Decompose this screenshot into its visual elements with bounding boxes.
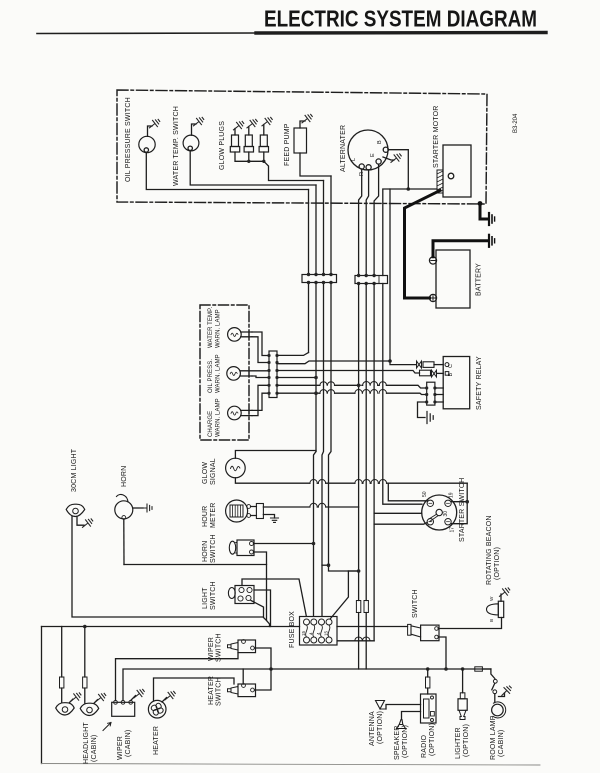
lighter label xyxy=(455,724,470,759)
fuse 1 xyxy=(304,619,310,625)
svg-text:(OPTION): (OPTION) xyxy=(402,725,409,758)
wire: headlight drop 2 with fuse xyxy=(84,627,86,704)
heater label xyxy=(153,726,160,755)
fuse F-B2 xyxy=(364,601,368,613)
node: B1 link junction xyxy=(348,570,358,572)
hour meter xyxy=(226,500,248,522)
alternator terminal letters xyxy=(351,140,383,176)
wire: glow signal top run xyxy=(235,451,316,459)
headlight lamp 1 xyxy=(56,703,74,715)
starter switch terminal 50 xyxy=(427,500,433,506)
node: radio tap xyxy=(426,667,430,671)
fuse 3 xyxy=(319,619,325,625)
alternator label xyxy=(340,125,347,172)
node: horn switch feed junction xyxy=(312,542,316,546)
wire: horn down xyxy=(123,519,125,564)
oil press warn lamp xyxy=(227,367,269,381)
connector bar 2 xyxy=(355,276,388,284)
water temp warn lamp xyxy=(228,328,252,342)
warn lamp dash-dot box xyxy=(200,305,249,440)
bus A3 vertical with jog xyxy=(322,181,324,617)
node: row4/A2 junction xyxy=(314,376,318,380)
battery positive thick wire to starter motor xyxy=(405,191,441,299)
wire: water temp switch to bus A2 xyxy=(190,151,316,186)
bus B4 vertical (starter feed) xyxy=(383,284,422,505)
wire: hour meter ground lead xyxy=(263,515,274,519)
wire: starter motor S terminal to node S xyxy=(408,188,437,190)
wire: fuse box feed horizontal with hops xyxy=(337,640,374,642)
safety relay fuse B bowtie xyxy=(432,370,437,377)
wire: L1 main cab feed xyxy=(42,626,408,628)
battery negative thick wire to ground xyxy=(433,241,487,257)
oil pressure switch xyxy=(139,117,162,152)
radio label xyxy=(421,723,436,758)
wire: hour meter to bus B1 xyxy=(263,506,358,508)
light switch label xyxy=(202,581,217,610)
wiper switch label xyxy=(208,633,223,662)
heater switch body xyxy=(238,684,256,697)
svg-text:(OPTION): (OPTION) xyxy=(377,711,384,744)
fuse box label xyxy=(289,611,296,648)
node: row6/A2 junction xyxy=(314,391,318,395)
node: headlight tap xyxy=(83,625,87,629)
fuse 2 xyxy=(311,619,317,625)
page code B3-204 xyxy=(513,113,519,133)
svg-text:(OPTION): (OPTION) xyxy=(429,723,436,756)
wire: switch bottom to bus xyxy=(438,637,446,669)
node: wiper/heater junction xyxy=(269,667,273,671)
wire: L1 left drop to bottom rail xyxy=(41,627,43,764)
node: A3/A4 link xyxy=(322,564,329,566)
node: switch drop xyxy=(444,667,448,671)
horn switch body xyxy=(237,540,254,556)
feed pump label xyxy=(284,123,291,166)
battery label xyxy=(476,263,483,296)
engine compartment dash-dot box xyxy=(117,90,487,204)
radio xyxy=(421,694,437,723)
wire: B3 branch to starter switch terminal R1 xyxy=(374,523,427,525)
wire: heater fan feed xyxy=(154,678,235,701)
wire: feed pump to bus A4 xyxy=(300,153,331,176)
starter switch wiper lines xyxy=(429,514,438,521)
rotating beacon lamp xyxy=(498,601,503,617)
title: ELECTRIC SYSTEM DIAGRAM xyxy=(264,6,537,32)
wire: light switch right to L1 xyxy=(254,590,271,627)
relay terminal B xyxy=(445,372,449,376)
wire: room lamp switch drop xyxy=(491,669,495,679)
svg-text:LIGHTER: LIGHTER xyxy=(455,727,462,759)
wire: strip row1 joins bus A1 xyxy=(277,353,309,356)
inline fuse: room lamp xyxy=(475,667,483,671)
wire: glow plug rail to bus A3 xyxy=(264,161,324,180)
lighter xyxy=(460,693,465,699)
horn xyxy=(115,501,133,519)
bus A1 vertical xyxy=(308,190,310,353)
safety relay box xyxy=(443,357,470,409)
fuse 4 xyxy=(326,619,332,625)
wiper motor xyxy=(112,702,135,716)
wiper motor label xyxy=(117,730,132,760)
wire: wiper motor T1 to wiper switch xyxy=(116,653,239,701)
wire: switch to beacon xyxy=(438,618,501,629)
water temp switch xyxy=(183,115,205,151)
wire: wiper motor T2 to main bus xyxy=(123,669,491,700)
heater switch label xyxy=(208,676,223,706)
wires: connector block to relay xyxy=(435,388,443,402)
bus B1 vertical xyxy=(358,284,360,670)
hour meter label xyxy=(202,503,217,529)
title underline rule xyxy=(37,32,258,35)
bus A2 vertical with jog xyxy=(314,185,317,617)
svg-text:ANTENNA: ANTENNA xyxy=(369,711,376,746)
node: row5/B1 junction xyxy=(357,384,361,388)
hour meter connector xyxy=(251,507,257,516)
water temp warn lamp label xyxy=(208,307,222,348)
starter switch label xyxy=(459,478,466,542)
wire: strip row3 to relay B fuse xyxy=(277,371,420,374)
bus A4 vertical with jog xyxy=(329,176,359,571)
wire: relay C feed from starter motor node xyxy=(390,189,417,365)
svg-text:ROOM LAMP: ROOM LAMP xyxy=(490,715,497,760)
fuse box body xyxy=(300,617,338,646)
wire: OP lamp lead to strip row 4 xyxy=(252,376,269,378)
wire: heater switch right to bus xyxy=(254,669,271,690)
starter switch terminal 19 xyxy=(445,500,451,506)
headlight label xyxy=(83,722,98,764)
wire: horn run xyxy=(124,564,267,566)
speaker xyxy=(397,725,406,729)
30cm light ground xyxy=(77,517,84,526)
wire+fuse: radio drop xyxy=(427,669,429,694)
antenna xyxy=(376,701,387,710)
wire: strip row2 joining C feed xyxy=(277,361,390,364)
bottom rail xyxy=(42,764,541,766)
wire: CH lamp leads to strip rows 5,6 xyxy=(252,385,269,415)
glow signal lamp xyxy=(226,458,246,478)
wire: alternator B terminal to node S xyxy=(388,150,408,189)
feed pump xyxy=(294,112,314,153)
wire: alternator R to bus B2 xyxy=(366,170,368,276)
starter motor xyxy=(437,145,471,197)
30cm light lamp xyxy=(66,504,85,516)
wire: relay connector pin3 to ground xyxy=(418,402,427,418)
starter switch body xyxy=(422,495,457,530)
glow plugs label xyxy=(219,121,226,170)
starter switch terminal numbers xyxy=(422,491,456,532)
wire: horn switch bottom to horn xyxy=(254,552,270,627)
wire: alternator L to bus B1 xyxy=(359,169,362,275)
horn switch label xyxy=(202,534,217,563)
alternator U1 xyxy=(348,130,403,170)
fuse F-B1 xyxy=(356,601,360,613)
oil press warn lamp label xyxy=(208,354,222,393)
oil pressure switch label xyxy=(125,97,132,182)
node S junction xyxy=(407,187,411,191)
charge warn lamp label xyxy=(208,398,222,437)
wire: light switch top to fuse1 diagonal xyxy=(242,579,307,617)
svg-text:(CABIN): (CABIN) xyxy=(498,730,505,757)
wire: heater switch top drop xyxy=(242,669,244,684)
heater fan xyxy=(148,700,166,718)
bus B3 vertical xyxy=(373,284,375,641)
wire: strip row6 to relay pin2 (with hops) xyxy=(277,393,427,394)
speaker label xyxy=(394,725,409,760)
water temp switch label xyxy=(173,106,180,186)
antenna label xyxy=(369,711,384,746)
svg-text:RADIO: RADIO xyxy=(421,734,428,758)
wire: light switch lower lead xyxy=(251,601,264,618)
relay terminal C xyxy=(445,363,449,367)
safety relay fuse B body xyxy=(420,370,431,376)
wire: lighter drop xyxy=(462,669,464,693)
wire: headlight drop 1 with fuse xyxy=(61,627,63,703)
glow signal label xyxy=(202,458,217,485)
svg-text:(OPTION): (OPTION) xyxy=(463,724,470,757)
node: starter switch 19 junction xyxy=(465,500,469,504)
wire: 30cm light feed xyxy=(72,517,267,621)
node: lighter tap xyxy=(461,667,465,671)
glow plugs (3) xyxy=(230,115,274,163)
beacon toggle switch xyxy=(421,625,439,641)
headlight lamp 2 xyxy=(80,703,99,715)
wire: drop to starter switch terminal 50 xyxy=(388,483,427,501)
wire: strip row4 to bus A2 xyxy=(277,377,316,379)
wire: WT lamp leads to strip rows 1,2 xyxy=(252,332,269,363)
wire: alternator E to bus B3 xyxy=(374,164,379,275)
bus B2 vertical xyxy=(365,284,367,670)
beacon switch label xyxy=(412,589,419,618)
connector bar 1 xyxy=(302,275,337,283)
wire: strip row5 long run to relay pin1 (with hops) xyxy=(277,385,427,388)
warn lamp connector strip xyxy=(269,351,277,398)
wire: wiper switch right to bus xyxy=(254,648,271,669)
safety relay connector block xyxy=(427,382,435,405)
wire: glow signal bottom run to starter switch (with hops) xyxy=(235,478,467,483)
svg-text:SPEAKER: SPEAKER xyxy=(394,726,401,760)
safety relay fuse C bowtie xyxy=(417,361,422,368)
wiper switch body xyxy=(238,640,256,653)
light switch body xyxy=(235,586,254,604)
rotating beacon label xyxy=(486,515,501,585)
safety relay label xyxy=(476,356,483,410)
wire: oil pressure switch to bus A1 xyxy=(146,152,308,189)
battery xyxy=(429,250,470,308)
safety relay fuse C body xyxy=(423,362,434,368)
room lamp switch xyxy=(493,679,497,683)
starter switch terminal 17 xyxy=(445,519,451,525)
room lamp label xyxy=(490,715,505,760)
ground: safety relay xyxy=(427,412,433,424)
ground: hour meter xyxy=(271,518,279,522)
starter motor label xyxy=(433,106,440,169)
charge warn lamp xyxy=(228,406,252,420)
fuse ratings xyxy=(301,630,329,636)
horn label xyxy=(121,466,128,487)
wire: B3 branch to starter switch body xyxy=(374,512,422,514)
wire: A4 branch to fuse4 diagonal xyxy=(331,571,349,619)
wire: starter switch right feed down xyxy=(451,483,467,524)
engine ground thick wire xyxy=(480,204,487,220)
wire: node S down bus B4 xyxy=(383,189,409,276)
starter switch terminal R1 xyxy=(427,519,433,525)
room lamp xyxy=(494,694,496,703)
wire: horn switch top to bus A2 xyxy=(254,543,314,545)
30cm light label xyxy=(71,448,78,492)
